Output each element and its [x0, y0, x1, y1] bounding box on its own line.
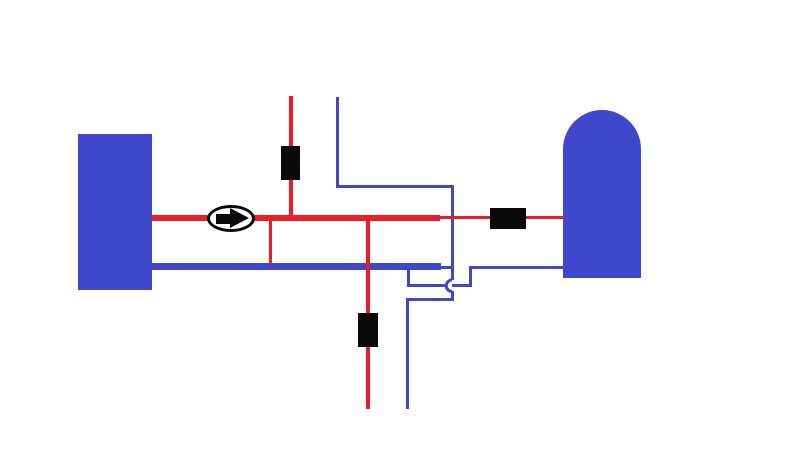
cylinder tank (right blue round-top shape) — [563, 110, 641, 278]
pump symbol (ellipse) — [207, 205, 255, 232]
pump arrow head — [230, 208, 249, 228]
wire A horizontal (y=185) — [336, 185, 453, 188]
wire A vertical (x=451, below hop) — [451, 291, 454, 301]
pump arrow tail — [216, 214, 232, 224]
boiler tank (left blue rectangle) — [78, 134, 152, 290]
wire A vertical (top, x=336) — [336, 97, 339, 188]
red vertical (x=367, bottom drop) — [366, 221, 370, 409]
thin red pipe to tank — [440, 216, 564, 219]
wire A vertical (x=451, above hop) — [451, 185, 454, 280]
wire C vertical (x=470) — [469, 266, 472, 287]
wire C horizontal to tank (y=266) — [469, 266, 565, 269]
red vertical (x=291, top riser) — [289, 96, 293, 217]
thick red supply pipe — [152, 215, 440, 221]
valve block on pipe to tank — [490, 208, 526, 229]
wire A bottom vertical (x=406) — [406, 298, 409, 409]
thin blue stub from return pipe end to vertical wire — [441, 266, 453, 269]
valve block on top riser — [281, 146, 300, 180]
thick blue return pipe — [152, 263, 441, 270]
wire C vertical stub from return pipe (x=407) — [407, 270, 410, 286]
valve block on bottom drop — [358, 313, 378, 347]
wire C horizontal (y=284) — [407, 284, 472, 287]
wire A bottom horizontal (y=298) — [406, 298, 454, 301]
red vertical stub (x=270) — [269, 221, 273, 264]
